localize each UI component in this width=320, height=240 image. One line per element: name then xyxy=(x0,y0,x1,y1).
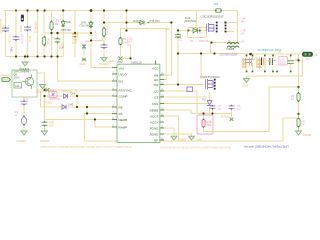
svg-text:1UF: 1UF xyxy=(179,36,183,41)
wire gate branch x196 xyxy=(196,11,198,31)
svg-text:VO: VO xyxy=(278,51,282,54)
wire lo pin row y91 xyxy=(164,90,197,92)
wire comp row y107 xyxy=(41,106,113,108)
diode D10 row y96 xyxy=(64,94,68,98)
output cap C21 green xyxy=(279,56,288,65)
node fbrow j xyxy=(86,112,88,114)
svg-text:SYNCHRONOUS BUCK CONTROLLER PO: SYNCHRONOUS BUCK CONTROLLER POWER SECTIO… xyxy=(160,146,231,150)
resistor R5 vin filter xyxy=(119,38,122,45)
diode D40 boot horizontal xyxy=(140,20,144,24)
svg-text:HB: HB xyxy=(154,73,158,77)
svg-text:10K: 10K xyxy=(15,84,20,88)
svg-text:C1D: C1D xyxy=(28,35,32,42)
svg-text:VCCX: VCCX xyxy=(150,120,158,124)
wire vin drop x126 xyxy=(126,11,128,31)
wire diode branch x91 xyxy=(91,11,112,68)
wire ss cap branch x44 xyxy=(44,96,46,131)
ground arrow GND x91 xyxy=(83,50,85,58)
svg-text:0R0: 0R0 xyxy=(207,123,212,127)
port arrow PWRGD xyxy=(2,78,11,82)
svg-text:PGND1: PGND1 xyxy=(17,139,27,143)
svg-text:C9: C9 xyxy=(25,97,29,101)
wire demb pin row y110 xyxy=(164,109,191,111)
TEXT LAYER xyxy=(0,15,318,150)
DNP box around D45 xyxy=(188,28,207,38)
svg-text:(SMAJ58A): (SMAJ58A) xyxy=(184,20,196,23)
svg-text:LO: LO xyxy=(154,89,159,93)
wire sense res drop x203 xyxy=(203,114,205,120)
node ss j xyxy=(94,118,96,120)
ic U9 LM5116 box xyxy=(117,64,160,142)
diode D46 body below Q2 xyxy=(209,92,211,114)
node sw top j xyxy=(210,41,212,43)
svg-text:(T16-3W): (T16-3W) xyxy=(80,25,91,28)
wire output top y54 xyxy=(244,53,302,55)
svg-text:1UF: 1UF xyxy=(59,46,64,50)
pin numbers gray left xyxy=(113,72,165,140)
node d45 left xyxy=(188,30,190,32)
svg-text:47U: 47U xyxy=(280,61,285,65)
svg-text:R4 10K: R4 10K xyxy=(106,26,110,35)
svg-text:Am pwb: LM5116-EVAL.SchDoc, 5p: Am pwb: LM5116-EVAL.SchDoc, 5p13 xyxy=(244,145,289,149)
node y33 x75 xyxy=(74,32,76,34)
wire output bottom y76 xyxy=(247,75,303,77)
output cap bank E2 orange blob xyxy=(257,58,262,69)
wire drain vertical x237 xyxy=(237,11,239,43)
svg-text:CSD18533Q5A: CSD18533Q5A xyxy=(200,75,220,79)
wire ramp row y127 xyxy=(95,126,112,128)
svg-text:D1: D1 xyxy=(215,2,219,6)
wire fb horizontal y87 xyxy=(269,86,299,88)
svg-text:GND: GND xyxy=(37,90,43,94)
ic right pin stubs xyxy=(160,75,164,140)
svg-text:C1A 10: C1A 10 xyxy=(20,34,24,44)
wire agnd row y134 xyxy=(164,134,192,136)
svg-text:PGND: PGND xyxy=(179,138,187,142)
resistor R1 top right xyxy=(50,22,53,30)
node fb j2 xyxy=(297,113,299,115)
ground arrow GND left mid xyxy=(40,85,46,89)
node gate x178 xyxy=(177,29,179,31)
ground arrow PGND x105 xyxy=(101,58,107,62)
wire agnd drop x84 xyxy=(84,114,86,142)
capacitor C2 green xyxy=(55,39,61,42)
wire vin resistor branch x117 xyxy=(121,29,131,59)
wire diode column x63 xyxy=(62,11,64,57)
wire sense row y113.5 xyxy=(191,110,232,114)
svg-text:3W: 3W xyxy=(55,23,59,26)
svg-text:CSD88: CSD88 xyxy=(226,47,235,51)
capacitor C11 ss green xyxy=(42,122,48,125)
wire sw pin row y84.5 xyxy=(164,84,204,86)
node bottombus j6 xyxy=(50,55,52,57)
wire HO vertical x167 xyxy=(165,29,167,80)
svg-text:L1: L1 xyxy=(252,57,256,61)
sub-circuit box SW1 xyxy=(12,70,37,97)
mov purple cap plates xyxy=(21,101,28,104)
capacitor C8 sense purple xyxy=(229,106,235,109)
node comp j1 xyxy=(76,106,78,108)
svg-text:U92: U92 xyxy=(117,60,123,64)
node bottombus j3 xyxy=(26,55,28,57)
svg-text:PGND: PGND xyxy=(303,133,311,137)
diode D45 inside box xyxy=(193,28,198,33)
node sense j1 xyxy=(202,112,204,114)
svg-text:R1B/10K: R1B/10K xyxy=(50,97,61,101)
wire cap vertical x57 xyxy=(57,33,59,81)
transistor Q2 low side mosfet xyxy=(206,79,214,89)
svg-text:J7R5-3W: J7R5-3W xyxy=(61,29,72,32)
svg-text:100V: 100V xyxy=(19,25,23,32)
svg-text:R1A: R1A xyxy=(46,38,50,44)
capacitor C1A input bulk xyxy=(2,28,9,31)
node gate j xyxy=(195,29,197,31)
transistor Q2 pin pads xyxy=(214,79,216,81)
output cap C22 green xyxy=(288,61,294,64)
svg-text:EN: EN xyxy=(119,79,123,83)
node vin j3 xyxy=(129,57,131,59)
svg-text:RT/SYNC: RT/SYNC xyxy=(119,88,133,92)
svg-text:1K: 1K xyxy=(291,97,294,101)
svg-text:CSC1/0R010/2512: CSC1/0R010/2512 xyxy=(201,15,224,19)
transistor Q1 high side mosfet xyxy=(207,23,215,32)
wire option link x77 xyxy=(76,90,78,107)
wire box pin upper y73 xyxy=(37,73,45,90)
node bus j2 xyxy=(26,9,28,11)
svg-text:GND2: GND2 xyxy=(45,101,53,105)
resistor R99 sense pink xyxy=(202,120,205,127)
wire mov drop x24 xyxy=(23,97,25,131)
node hb j xyxy=(103,21,105,23)
svg-text:COMP: COMP xyxy=(119,95,128,99)
wire input cap vertical 1 xyxy=(5,11,7,57)
svg-text:DGND: DGND xyxy=(221,115,229,119)
component terminal pads xyxy=(5,10,299,128)
wire en row y81 xyxy=(58,80,113,82)
svg-text:GND: GND xyxy=(80,62,86,66)
COMPONENTS 2 xyxy=(2,43,313,143)
svg-text:1U: 1U xyxy=(218,107,221,111)
diode D11 row y107 xyxy=(62,105,66,109)
svg-text:C1A: C1A xyxy=(8,36,12,42)
wire y40 link xyxy=(91,40,104,42)
node d45 right xyxy=(199,30,201,32)
svg-text:PGND: PGND xyxy=(150,126,160,130)
diode D42 lower xyxy=(82,44,86,50)
wire HB vertical x170 xyxy=(170,23,172,76)
pink DNP box small xyxy=(49,92,57,98)
wire gnd drop out x246 xyxy=(246,76,248,78)
wire top input bus xyxy=(5,10,238,12)
node bus x126 xyxy=(125,9,127,11)
svg-text:1V2: 1V2 xyxy=(165,28,170,31)
svg-text:VCC: VCC xyxy=(152,67,159,71)
node y33 j1 xyxy=(50,32,52,34)
node bus j4 xyxy=(44,9,46,11)
fuse F1 black body xyxy=(21,15,24,22)
node bottombus j7 xyxy=(56,55,58,57)
node sw j3 xyxy=(213,52,215,54)
svg-text:R10: R10 xyxy=(50,88,55,92)
node bottombus j4 xyxy=(36,55,38,57)
diode D41 upper xyxy=(89,22,93,26)
cap bank pin ticks bottom xyxy=(247,63,291,72)
svg-text:FB: FB xyxy=(119,105,123,109)
wire fb column x298 xyxy=(287,54,298,131)
transistor Q3 npn inside xyxy=(25,77,33,85)
node sw j2 xyxy=(200,52,202,54)
ground arrow fb xyxy=(296,131,302,135)
svg-text:1U: 1U xyxy=(237,107,240,111)
wire sw top y42 xyxy=(211,42,238,44)
svg-text:LM5116 BUCK CONVERTER POWER ST: LM5116 BUCK CONVERTER POWER STAGE 12V IN… xyxy=(40,145,132,149)
svg-text:D40: D40 xyxy=(66,20,72,24)
svg-text:Q1: Q1 xyxy=(228,40,232,44)
svg-text:1N: 1N xyxy=(198,27,201,30)
svg-text:J9: J9 xyxy=(314,53,318,57)
node bottombus j1 xyxy=(15,55,17,57)
inductor blob green text xyxy=(227,43,239,48)
ground arrow out xyxy=(244,79,250,83)
wire gate horizontal y30 xyxy=(178,30,206,32)
svg-text:LM5116: LM5116 xyxy=(131,60,142,64)
wire ho pin row y79.5 xyxy=(164,79,166,81)
resistor R21 fb bottom xyxy=(297,119,300,127)
svg-text:RAMP: RAMP xyxy=(119,125,128,129)
svg-text:HO: HO xyxy=(154,78,159,82)
resistor box 10K inside xyxy=(14,83,22,89)
wire fb vertical x269 xyxy=(268,87,270,132)
capacitor C12 boot green xyxy=(175,35,181,37)
wire q2 drain x201 xyxy=(200,54,202,78)
sense resistor CSC1 inline xyxy=(216,9,222,13)
wire agnd rail riser x283 xyxy=(282,118,284,141)
svg-text:VIN: VIN xyxy=(119,67,124,71)
node q1 pins j xyxy=(224,21,226,23)
svg-text:1UF: 1UF xyxy=(72,42,77,45)
node sync j1 xyxy=(76,95,78,97)
svg-text:1%: 1% xyxy=(241,32,245,36)
svg-text:2N70: 2N70 xyxy=(14,76,21,80)
node vin j2 xyxy=(125,29,127,31)
resistor R4 vcc branch xyxy=(102,28,105,36)
svg-text:CH5: CH5 xyxy=(68,102,74,106)
wire mid horizontal y33 xyxy=(45,32,91,34)
ground arrow pgnd ic2 xyxy=(189,136,195,140)
node bottombus j2 xyxy=(24,55,26,57)
ground arrow pgnd mov xyxy=(21,131,27,135)
svg-text:C16/10U: C16/10U xyxy=(34,21,38,33)
svg-text:CSD18533Q5A: CSD18533Q5A xyxy=(219,53,237,57)
node hb end dot xyxy=(170,21,172,23)
net tie X rt row xyxy=(46,88,50,92)
wire HB rail y22.5 xyxy=(104,22,171,24)
svg-text:J7R5-3W: J7R5-3W xyxy=(199,40,210,43)
node y33 x57 xyxy=(56,32,58,34)
wire comp corner x40 xyxy=(40,92,42,107)
node box pin y96 xyxy=(43,95,45,97)
node sw j1 xyxy=(177,52,179,54)
ground arrow pgnd ss xyxy=(42,131,48,135)
wire q1 pads to drain xyxy=(227,23,238,32)
capacitor C1B input bulk xyxy=(13,37,20,40)
svg-text:CSG: CSG xyxy=(152,102,159,106)
cap bank pin ticks top xyxy=(247,54,291,61)
wire sync row y96 xyxy=(45,95,112,97)
svg-text:D40: D40 xyxy=(133,19,139,23)
mov lamp ellipse xyxy=(21,117,26,125)
capacitor C7 sense purple xyxy=(210,106,216,109)
svg-text:PGND1: PGND1 xyxy=(40,139,50,143)
capacitor C1C input bulk xyxy=(24,27,31,30)
svg-text:1UF: 1UF xyxy=(94,30,98,36)
ic top pin stubs xyxy=(155,61,157,65)
wire fb link x87 xyxy=(86,107,88,114)
wire bottom input bus xyxy=(6,56,63,58)
node sense j2 xyxy=(211,112,213,114)
svg-text:1K: 1K xyxy=(302,123,305,127)
output cap C20 dark xyxy=(270,58,273,65)
wire sense bottom y130 xyxy=(204,127,270,132)
wire fb row y113.5 xyxy=(85,113,113,115)
svg-text:CH4: CH4 xyxy=(70,91,76,95)
connector J9 output xyxy=(302,52,313,57)
node out j1 xyxy=(249,53,252,56)
svg-text:VOUT: VOUT xyxy=(150,114,159,118)
capacitor C10 inside pink box xyxy=(52,93,55,96)
svg-text:1%: 1% xyxy=(241,20,245,24)
wire sw to ic x177 xyxy=(177,31,179,85)
cap bank green pads xyxy=(246,55,292,73)
wire lo corner x197 xyxy=(196,91,198,114)
svg-text:1UF: 1UF xyxy=(49,124,54,128)
svg-text:VO+: VO+ xyxy=(306,57,312,61)
wire vout pin row y116 xyxy=(164,115,179,117)
wire vcc diode branch x105 xyxy=(103,11,105,58)
node bus j1 xyxy=(15,9,17,11)
net tie X vin xyxy=(119,56,123,60)
resistor R-gate purple xyxy=(187,87,193,92)
resistor R20 fb top xyxy=(297,93,300,101)
svg-text:UVLO: UVLO xyxy=(119,72,128,76)
wire pgnd row y128 xyxy=(164,128,174,136)
capacitor C3 purple vcc xyxy=(101,45,108,48)
node bus j5 xyxy=(90,9,93,12)
svg-text:DEMB: DEMB xyxy=(119,118,128,122)
svg-text:SS: SS xyxy=(119,112,123,116)
wire resistor R-in vertical xyxy=(43,11,45,57)
ic left pin stubs xyxy=(112,68,117,128)
svg-text:GND: GND xyxy=(242,84,248,88)
capacitor C13 orange x75 xyxy=(72,34,78,36)
wire resistor vertical x51 xyxy=(51,11,53,57)
svg-text:SW: SW xyxy=(153,83,158,87)
ground X DGND xyxy=(230,118,234,122)
ground arrow pgnd ic1 xyxy=(171,136,177,140)
svg-text:1%: 1% xyxy=(241,40,245,44)
resistor R3 mid xyxy=(61,21,65,25)
svg-text:AGND: AGND xyxy=(150,132,160,136)
wire sw node y53.5 xyxy=(178,53,244,55)
svg-text:16: 16 xyxy=(127,43,130,47)
wire sw drop x210 xyxy=(210,43,212,54)
node y33 j3 xyxy=(90,32,92,34)
node bottombus j5 xyxy=(44,55,46,57)
svg-text:PWRGD: PWRGD xyxy=(1,74,12,78)
svg-text:2200/100V: 2200/100V xyxy=(0,18,3,33)
wire vout drop x178 xyxy=(178,116,180,141)
svg-text:+VIN: +VIN xyxy=(108,59,114,63)
node rt j1 xyxy=(43,89,45,91)
wire input cap vertical 3 xyxy=(27,11,29,57)
pink DNP box sense resistor xyxy=(197,115,213,134)
node fb j1 xyxy=(297,86,299,88)
svg-text:CS: CS xyxy=(154,95,158,99)
node bus j3 xyxy=(36,9,38,11)
wire input cap vertical 4 xyxy=(37,11,39,57)
output cap bank E1 orange blob xyxy=(242,58,247,69)
transistor Q1 pin pads xyxy=(216,22,218,24)
wire ramp corner x95 xyxy=(94,120,96,128)
wire cs pin row y97 xyxy=(164,96,207,98)
wire fb lower y118 xyxy=(283,117,299,119)
wire agnd rail y141 xyxy=(85,140,284,142)
wire input cap vertical 2 xyxy=(15,11,17,57)
wire rt row y90 xyxy=(37,89,112,91)
wire csg pin row y103.5 xyxy=(164,103,210,105)
node bus x105 xyxy=(103,9,105,11)
node comp j2 xyxy=(86,106,88,108)
wire sense cap stubs xyxy=(213,110,232,117)
resistor R2 mid xyxy=(42,37,45,45)
wire y28 rail to HO xyxy=(121,28,167,30)
svg-text:(T16-3W): (T16-3W) xyxy=(149,20,160,23)
wire ss row y119.5 xyxy=(45,119,113,121)
wire gnd drop x25 xyxy=(24,57,26,63)
node vin j1 xyxy=(125,21,127,23)
svg-text:DEMB: DEMB xyxy=(150,108,159,112)
ground arrow PGND mid-left xyxy=(22,62,28,66)
svg-text:GND: GND xyxy=(196,138,202,142)
node sw x178 xyxy=(177,83,179,85)
svg-text:EP: EP xyxy=(154,138,158,142)
node out fb top xyxy=(297,59,299,61)
wire hb pin row y75 xyxy=(164,74,171,76)
svg-text:35V: 35V xyxy=(10,47,14,52)
svg-text:C4x: C4x xyxy=(85,39,90,43)
wire output conn drop x302 xyxy=(302,57,304,77)
node y33 j2 xyxy=(56,32,58,34)
